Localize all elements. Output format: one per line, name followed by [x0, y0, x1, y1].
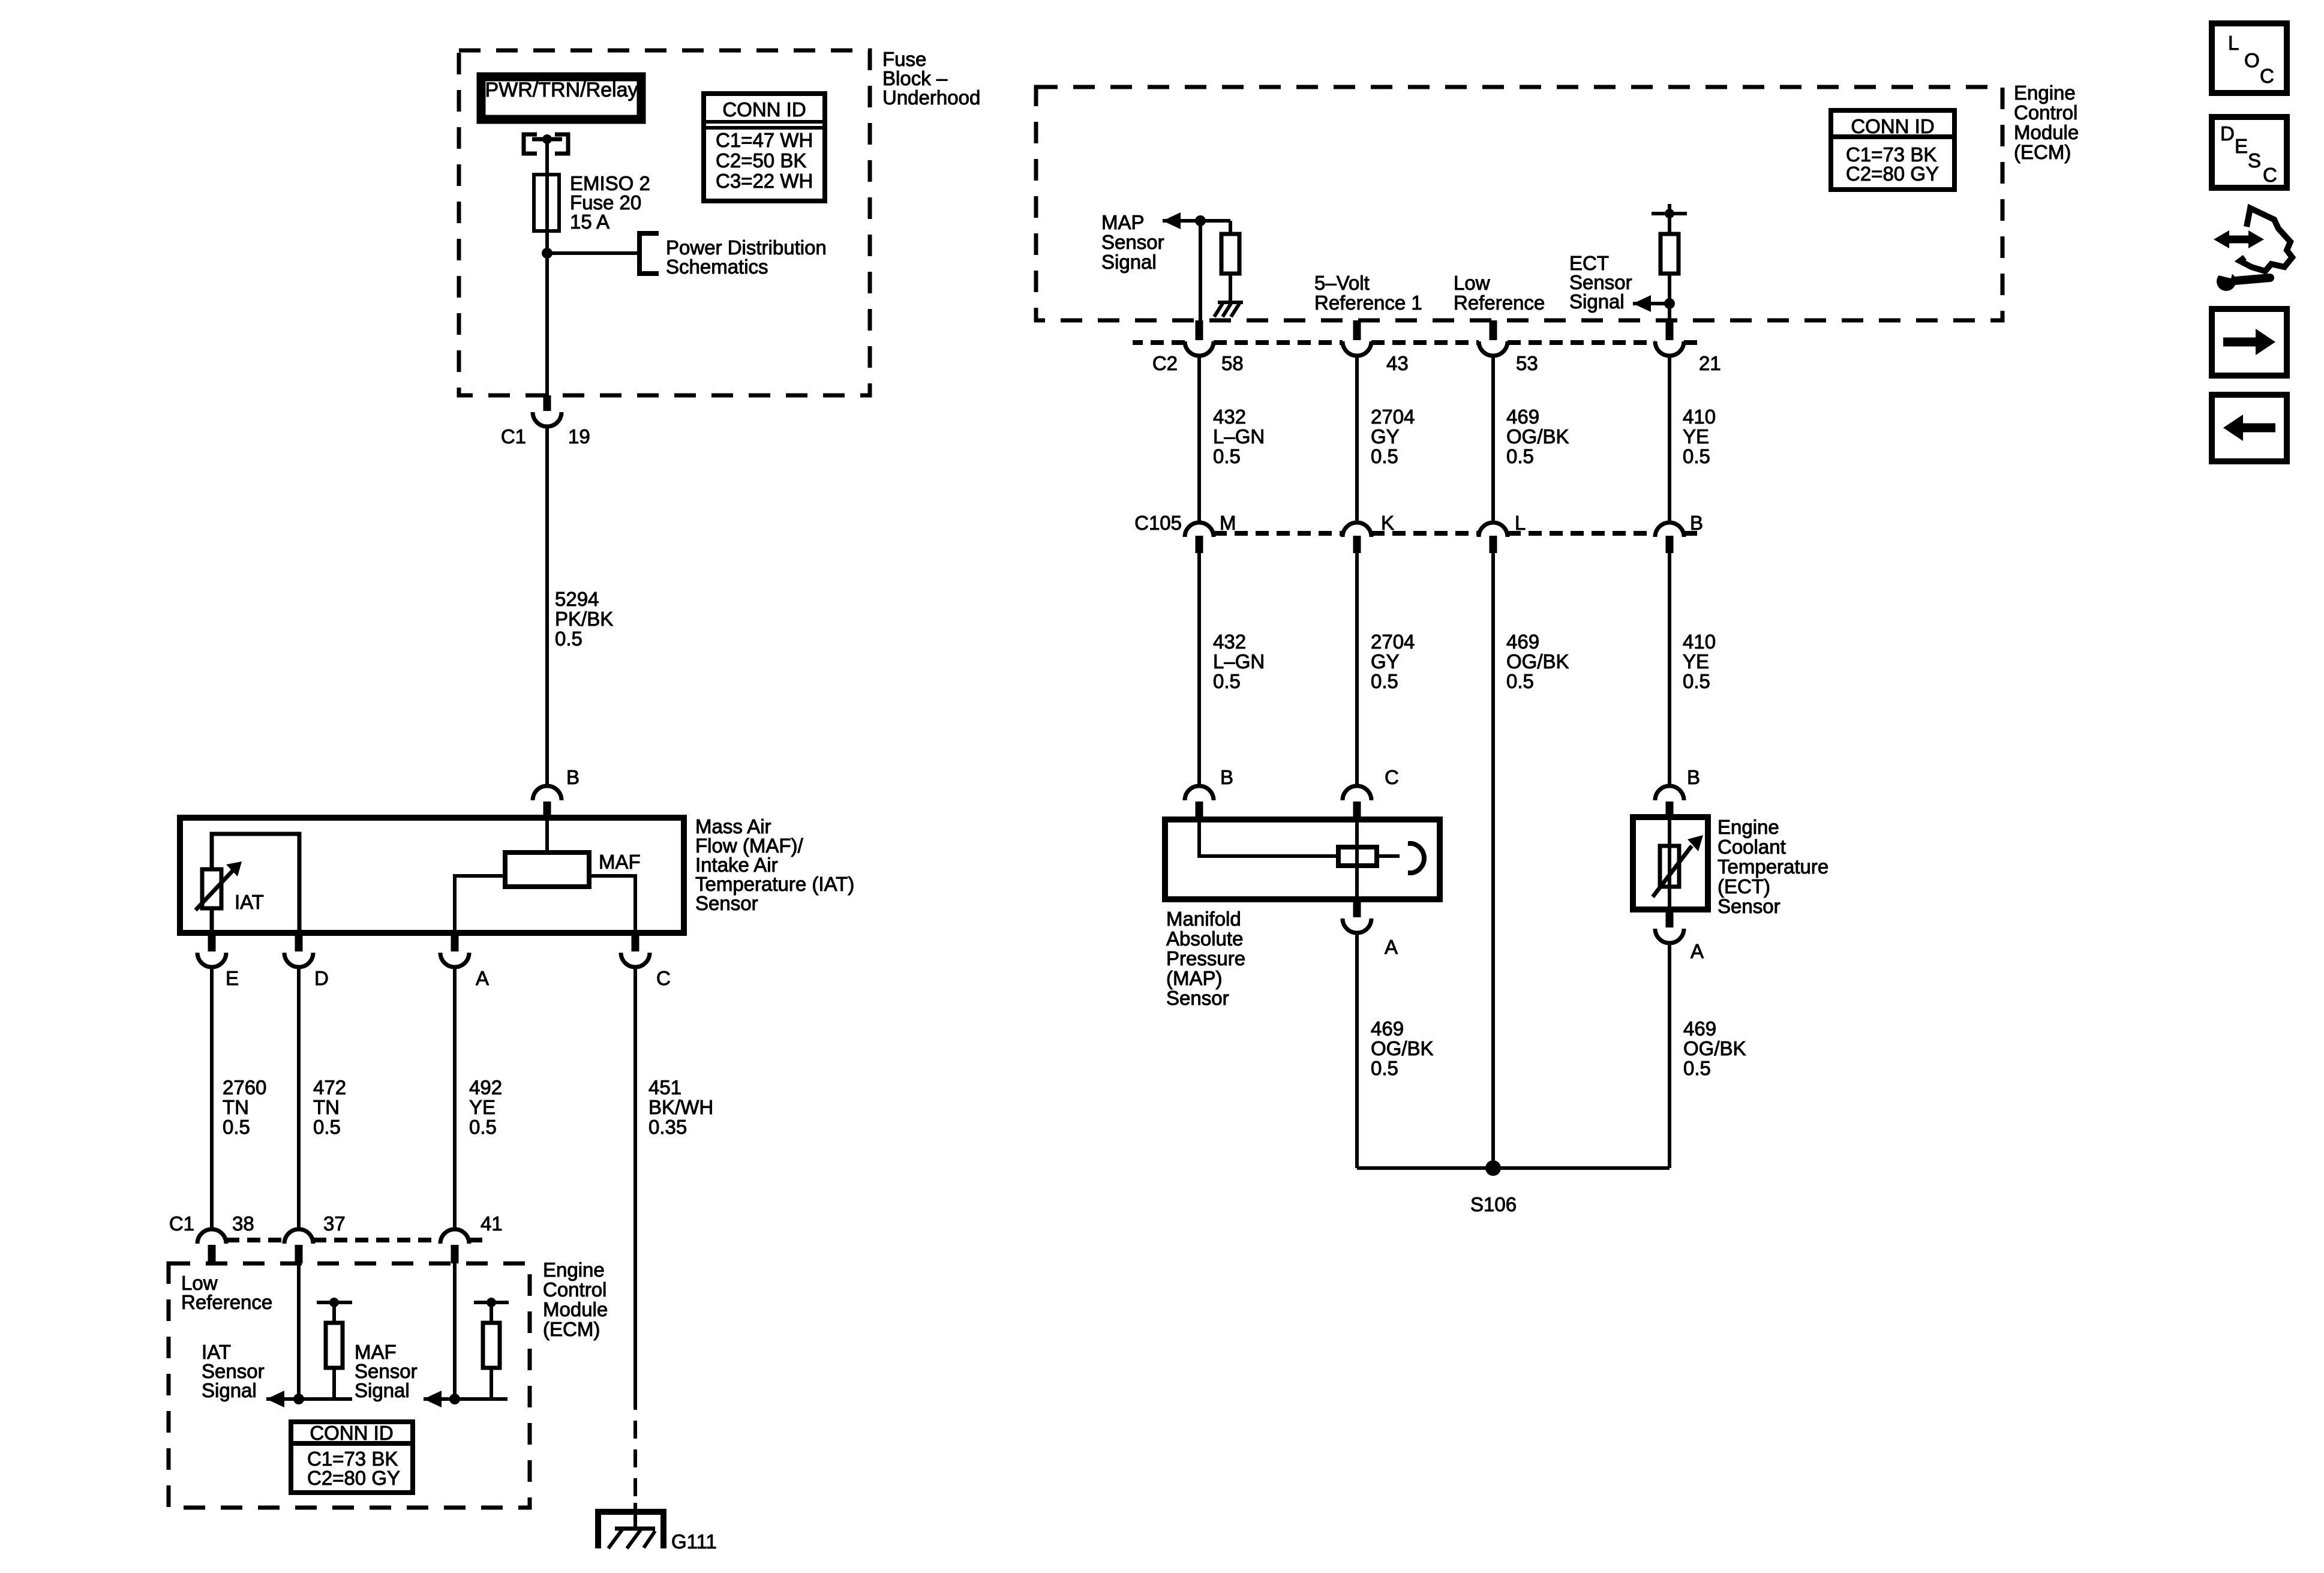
svg-text:YE: YE [1683, 425, 1709, 448]
svg-text:(ECM): (ECM) [2014, 141, 2071, 163]
svg-text:21: 21 [1699, 352, 1721, 374]
svg-text:OG/BK: OG/BK [1683, 1037, 1746, 1059]
svg-text:38: 38 [232, 1212, 254, 1235]
svg-text:Module: Module [2014, 121, 2079, 143]
svg-text:D: D [2220, 122, 2235, 145]
svg-text:B: B [1220, 766, 1233, 788]
svg-text:E: E [2235, 135, 2248, 157]
svg-text:Absolute: Absolute [1166, 927, 1243, 950]
svg-text:469: 469 [1506, 406, 1539, 428]
svg-text:Sensor: Sensor [1718, 895, 1780, 917]
svg-text:41: 41 [481, 1212, 503, 1235]
svg-text:YE: YE [469, 1096, 496, 1118]
svg-text:C2=80 GY: C2=80 GY [307, 1467, 400, 1489]
svg-text:OG/BK: OG/BK [1371, 1037, 1434, 1059]
svg-text:TN: TN [223, 1096, 249, 1118]
svg-text:PWR/TRN/Relay: PWR/TRN/Relay [485, 79, 638, 101]
svg-text:Signal: Signal [1101, 251, 1157, 273]
svg-text:469: 469 [1683, 1017, 1716, 1040]
svg-text:A: A [476, 967, 489, 989]
svg-text:C1=47 WH: C1=47 WH [716, 129, 813, 151]
svg-text:C: C [1385, 766, 1399, 788]
svg-text:E: E [226, 967, 239, 989]
svg-text:Sensor: Sensor [1101, 231, 1164, 253]
svg-text:58: 58 [1221, 352, 1244, 374]
svg-text:451: 451 [648, 1076, 681, 1098]
svg-text:469: 469 [1371, 1017, 1404, 1040]
svg-text:0.35: 0.35 [648, 1116, 687, 1138]
svg-text:2760: 2760 [223, 1076, 266, 1098]
svg-text:L–GN: L–GN [1213, 425, 1265, 448]
svg-text:TN: TN [313, 1096, 340, 1118]
svg-text:CONN ID: CONN ID [722, 98, 806, 121]
svg-text:5–Volt: 5–Volt [1314, 272, 1370, 294]
svg-text:Signal: Signal [1569, 290, 1625, 313]
svg-text:2704: 2704 [1371, 406, 1415, 428]
svg-text:0.5: 0.5 [223, 1116, 250, 1138]
svg-text:0.5: 0.5 [1371, 445, 1398, 467]
svg-text:432: 432 [1213, 631, 1246, 653]
svg-text:19: 19 [568, 425, 590, 448]
svg-text:C2: C2 [1152, 352, 1178, 374]
svg-text:C2=50 BK: C2=50 BK [716, 149, 806, 172]
svg-text:D: D [314, 967, 329, 989]
svg-text:410: 410 [1683, 406, 1716, 428]
svg-text:(ECM): (ECM) [543, 1318, 600, 1340]
svg-text:G111: G111 [671, 1530, 717, 1553]
svg-text:Control: Control [543, 1278, 606, 1301]
svg-text:IAT: IAT [235, 891, 264, 913]
svg-text:0.5: 0.5 [1371, 670, 1398, 692]
svg-text:S106: S106 [1470, 1193, 1517, 1215]
svg-text:Pressure: Pressure [1166, 947, 1245, 969]
svg-text:0.5: 0.5 [555, 628, 582, 650]
svg-text:C1: C1 [169, 1212, 194, 1235]
svg-text:Signal: Signal [202, 1379, 257, 1401]
svg-text:5294: 5294 [555, 588, 599, 610]
svg-text:Module: Module [543, 1298, 608, 1320]
svg-text:0.5: 0.5 [313, 1116, 341, 1138]
svg-text:410: 410 [1683, 631, 1716, 653]
svg-text:Engine: Engine [2014, 82, 2076, 104]
svg-text:472: 472 [313, 1076, 346, 1098]
svg-text:L–GN: L–GN [1213, 650, 1265, 673]
svg-text:B: B [1690, 512, 1703, 534]
svg-text:Engine: Engine [1718, 816, 1779, 838]
svg-text:L: L [1515, 512, 1526, 534]
svg-text:15 A: 15 A [570, 211, 609, 233]
svg-text:O: O [2244, 49, 2260, 71]
svg-text:A: A [1385, 936, 1398, 958]
svg-text:469: 469 [1506, 631, 1539, 653]
svg-text:0.5: 0.5 [1213, 445, 1241, 467]
svg-text:Coolant: Coolant [1718, 836, 1786, 858]
svg-text:C1: C1 [501, 425, 526, 448]
svg-text:K: K [1381, 512, 1394, 534]
svg-text:Sensor: Sensor [695, 892, 758, 914]
svg-text:(MAP): (MAP) [1166, 967, 1223, 989]
svg-text:Manifold: Manifold [1166, 908, 1241, 930]
svg-text:M: M [1220, 512, 1236, 534]
svg-text:B: B [1687, 766, 1700, 788]
svg-text:0.5: 0.5 [1506, 670, 1534, 692]
svg-text:Underhood: Underhood [882, 86, 980, 109]
svg-text:PK/BK: PK/BK [555, 608, 613, 630]
svg-text:43: 43 [1386, 352, 1409, 374]
svg-text:MAP: MAP [1101, 211, 1145, 233]
svg-text:(ECT): (ECT) [1718, 875, 1770, 897]
svg-text:0.5: 0.5 [1683, 670, 1710, 692]
svg-text:2704: 2704 [1371, 631, 1415, 653]
svg-text:37: 37 [323, 1212, 346, 1235]
svg-text:B: B [566, 766, 580, 788]
svg-text:OG/BK: OG/BK [1506, 650, 1569, 673]
svg-text:432: 432 [1213, 406, 1246, 428]
svg-text:Control: Control [2014, 101, 2077, 124]
svg-text:Engine: Engine [543, 1259, 605, 1281]
svg-text:C2=80 GY: C2=80 GY [1846, 163, 1939, 185]
svg-text:0.5: 0.5 [1213, 670, 1241, 692]
svg-text:0.5: 0.5 [1506, 445, 1534, 467]
svg-text:GY: GY [1371, 650, 1400, 673]
svg-text:0.5: 0.5 [469, 1116, 497, 1138]
svg-text:Reference 1: Reference 1 [1314, 292, 1422, 314]
svg-text:Sensor: Sensor [1166, 987, 1229, 1009]
svg-text:Signal: Signal [355, 1379, 410, 1401]
svg-text:GY: GY [1371, 425, 1400, 448]
svg-text:C: C [2260, 65, 2274, 87]
svg-text:C: C [656, 967, 671, 989]
svg-text:492: 492 [469, 1076, 502, 1098]
svg-text:Low: Low [1454, 272, 1490, 294]
svg-text:BK/WH: BK/WH [648, 1096, 713, 1118]
svg-text:C3=22 WH: C3=22 WH [716, 170, 813, 192]
svg-text:S: S [2248, 149, 2261, 172]
svg-text:Schematics: Schematics [666, 256, 768, 278]
svg-text:C: C [2263, 164, 2277, 186]
svg-text:Temperature: Temperature [1718, 855, 1828, 878]
svg-text:C105: C105 [1134, 512, 1182, 534]
svg-text:MAF: MAF [599, 851, 641, 873]
svg-text:CONN ID: CONN ID [310, 1422, 393, 1444]
svg-text:Reference: Reference [181, 1291, 272, 1313]
svg-text:0.5: 0.5 [1371, 1057, 1398, 1079]
svg-text:CONN ID: CONN ID [1851, 115, 1934, 137]
svg-text:0.5: 0.5 [1683, 445, 1710, 467]
svg-text:Reference: Reference [1454, 292, 1545, 314]
svg-text:L: L [2228, 32, 2239, 54]
svg-text:0.5: 0.5 [1683, 1057, 1711, 1079]
svg-text:OG/BK: OG/BK [1506, 425, 1569, 448]
svg-text:YE: YE [1683, 650, 1709, 673]
svg-text:A: A [1691, 940, 1704, 962]
svg-text:53: 53 [1516, 352, 1538, 374]
